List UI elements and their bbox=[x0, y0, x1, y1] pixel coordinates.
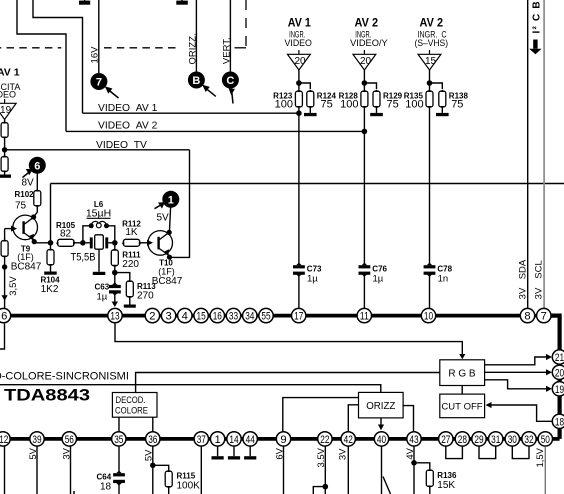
I2C down arrow bbox=[529, 40, 541, 55]
resistor R138 body bbox=[439, 91, 446, 107]
svg-text:6: 6 bbox=[1, 311, 7, 323]
resistor R124 body bbox=[307, 91, 314, 107]
svg-text:5V: 5V bbox=[144, 449, 155, 461]
svg-text:42: 42 bbox=[344, 434, 353, 446]
pin 15 bbox=[194, 308, 208, 322]
svg-text:50: 50 bbox=[541, 434, 550, 446]
wire pin37 down bbox=[200, 447, 202, 494]
wire pin 18 to CUT OFF bbox=[491, 405, 552, 421]
wire IF video long horizontal bbox=[51, 183, 564, 185]
pin 56 bbox=[62, 432, 76, 446]
pin 22 bbox=[318, 432, 332, 446]
pin 40 bbox=[374, 432, 388, 446]
ground bar pin14 bbox=[228, 456, 240, 459]
svg-text:3V: 3V bbox=[534, 287, 545, 299]
T10 collector dot bbox=[167, 230, 172, 235]
svg-text:20: 20 bbox=[360, 56, 372, 67]
wire VIDEO TV horizontal bbox=[5, 149, 190, 151]
T9 emitter dot bbox=[32, 239, 37, 244]
IC top bus edge bbox=[0, 314, 552, 318]
wire AV1 source: from top edge down to VIDEO AV 1 line bbox=[33, 0, 83, 113]
wire VIDEO TV vertical down to T10 emitter bbox=[174, 150, 190, 258]
transistor T9 bbox=[13, 215, 38, 240]
wire pin13 to RGB top bbox=[115, 324, 462, 357]
wire pin35 down to C64 bbox=[118, 447, 120, 474]
svg-text:VIDEO AV 1: VIDEO AV 1 bbox=[98, 103, 158, 114]
svg-text:35: 35 bbox=[114, 434, 123, 446]
wire node to R113 bbox=[115, 273, 130, 281]
transistor T10 bbox=[148, 231, 173, 256]
svg-text:75: 75 bbox=[15, 201, 27, 212]
box CUT OFF bbox=[440, 394, 485, 418]
wire R101a to node bbox=[4, 138, 6, 157]
wire triangle19 to R101 bbox=[4, 120, 6, 123]
svg-text:75: 75 bbox=[451, 99, 463, 111]
svg-text:3V: 3V bbox=[517, 287, 528, 299]
svg-text:36: 36 bbox=[148, 434, 157, 446]
wire R113 to ground bbox=[129, 298, 131, 305]
svg-text:4: 4 bbox=[182, 311, 188, 323]
pin 18 bbox=[552, 414, 564, 428]
svg-text:21: 21 bbox=[555, 352, 564, 364]
pin 55 bbox=[259, 308, 273, 322]
svg-text:AV 2: AV 2 bbox=[355, 17, 379, 29]
wire pin9 down bbox=[283, 447, 285, 494]
resistor R136 body bbox=[426, 470, 433, 487]
svg-text:19: 19 bbox=[0, 105, 12, 116]
resistor R111 body bbox=[111, 250, 118, 266]
svg-text:1K2: 1K2 bbox=[41, 284, 59, 295]
svg-text:16V: 16V bbox=[90, 46, 101, 64]
wire base column down to pin 6 bbox=[4, 229, 6, 240]
wire node to R115 bbox=[153, 465, 169, 470]
svg-text:22: 22 bbox=[320, 434, 329, 446]
test point 1 bbox=[155, 191, 180, 209]
pin 13 bbox=[108, 308, 122, 322]
box ORIZZ bbox=[359, 392, 404, 418]
edge fragment bottom left bbox=[73, 491, 75, 494]
svg-text:270: 270 bbox=[137, 291, 154, 302]
wire node to R124 bbox=[299, 83, 310, 89]
svg-text:6: 6 bbox=[34, 160, 40, 172]
node pin36 R115 bbox=[150, 463, 156, 469]
test point 7 bbox=[90, 73, 118, 98]
svg-text:17: 17 bbox=[294, 311, 303, 323]
resistor R101a body bbox=[1, 123, 8, 138]
wire C64 down bbox=[118, 483, 120, 494]
svg-text:44: 44 bbox=[246, 434, 255, 446]
wire pin44 to ground bbox=[249, 447, 251, 457]
wire 16V rail down to test point 7 bbox=[98, 0, 100, 73]
svg-text:1µ: 1µ bbox=[97, 292, 108, 303]
wire orizz top feed bbox=[0, 385, 381, 393]
svg-text:SDA: SDA bbox=[517, 259, 528, 279]
svg-text:15: 15 bbox=[197, 311, 206, 323]
wire R101b to ground bbox=[4, 172, 6, 175]
pin 33 bbox=[226, 308, 240, 322]
wire decod colore to RGB left bbox=[136, 373, 440, 393]
wire SCL vertical bbox=[543, 0, 545, 308]
wire C76 to pin 11 bbox=[363, 274, 365, 308]
divider AV1 bbox=[273, 17, 336, 308]
U link pins 27-28 bbox=[446, 447, 463, 459]
wire L6 right bracket bbox=[107, 226, 115, 243]
svg-text:AV 1: AV 1 bbox=[0, 67, 20, 79]
svg-text:R G B: R G B bbox=[448, 368, 476, 379]
node T9 emitter / R104 / R105 bbox=[48, 240, 54, 246]
wire triangle to node (AV2) bbox=[363, 70, 365, 83]
wire R104 to ground bbox=[50, 244, 52, 250]
svg-text:20: 20 bbox=[294, 56, 306, 67]
svg-text:3.5V: 3.5V bbox=[316, 447, 327, 467]
capacitor plate stub C-top-left bbox=[79, 0, 90, 5]
pin 10 bbox=[421, 308, 435, 322]
svg-text:43: 43 bbox=[409, 434, 418, 446]
node junction video tv bbox=[2, 147, 7, 152]
svg-text:1: 1 bbox=[168, 194, 174, 206]
wire pin14 to ground bbox=[233, 447, 235, 457]
node filter left bbox=[80, 240, 86, 246]
pin 32 bbox=[522, 432, 536, 446]
node base column bbox=[2, 264, 7, 269]
pin 3 bbox=[161, 308, 175, 322]
svg-text:ORIZZ.: ORIZZ. bbox=[188, 33, 199, 64]
wire RGB to pin 20 bbox=[485, 371, 547, 373]
svg-text:3,5V: 3,5V bbox=[8, 276, 19, 296]
arrow into pin 6 bbox=[2, 295, 8, 301]
wire R102 to T9 collector bbox=[34, 207, 38, 217]
svg-text:1n: 1n bbox=[438, 274, 449, 285]
divider AV2 bbox=[339, 17, 403, 308]
svg-text:100K: 100K bbox=[177, 480, 201, 491]
svg-text:3V: 3V bbox=[337, 448, 348, 460]
node VIDEO AV 2 bbox=[362, 129, 368, 135]
inductor L6 bbox=[91, 221, 106, 227]
svg-text:5V: 5V bbox=[157, 213, 170, 224]
svg-text:40: 40 bbox=[377, 434, 386, 446]
svg-text:AV 1: AV 1 bbox=[288, 17, 312, 29]
IC right edge bbox=[551, 316, 560, 439]
svg-text:34: 34 bbox=[245, 311, 254, 323]
resistor R115 body bbox=[165, 471, 172, 487]
ground bar left input bbox=[0, 175, 11, 178]
pointer mark below pin40 bbox=[383, 477, 391, 494]
svg-text:T5,5B: T5,5B bbox=[71, 252, 96, 264]
resistor base column body bbox=[1, 241, 8, 257]
capacitor C63 bbox=[109, 274, 121, 303]
svg-text:39: 39 bbox=[32, 434, 41, 446]
svg-text:R136: R136 bbox=[437, 471, 457, 480]
resistor R129 body bbox=[373, 91, 380, 107]
svg-text:AV 2: AV 2 bbox=[420, 17, 444, 29]
test point B bbox=[188, 72, 216, 97]
wire R124 to ground bbox=[309, 108, 311, 113]
svg-text:C64: C64 bbox=[97, 473, 112, 482]
pin 39 bbox=[30, 432, 44, 446]
svg-text:2: 2 bbox=[149, 311, 155, 323]
wire T10 emitter to VIDEO TV corner bbox=[170, 256, 175, 258]
wire R112 to T10 base bbox=[141, 242, 148, 244]
wire T9 base left bbox=[5, 228, 11, 230]
resistor R101b body bbox=[1, 157, 8, 172]
svg-text:29: 29 bbox=[474, 434, 483, 446]
wire ORIZZ bottom to pin40 bbox=[380, 418, 382, 429]
svg-text:75: 75 bbox=[387, 99, 399, 111]
pin 44 bbox=[243, 432, 257, 446]
wire triangle to node bbox=[298, 70, 300, 83]
wire T10 collector to tp1 bbox=[169, 208, 170, 233]
svg-text:CUT OFF: CUT OFF bbox=[441, 401, 482, 412]
svg-text:31: 31 bbox=[491, 434, 500, 446]
IC bottom bus edge bbox=[0, 437, 560, 441]
resistor R112 body bbox=[123, 239, 140, 246]
pin 35 bbox=[112, 432, 126, 446]
ground bar filter bbox=[93, 272, 106, 275]
node pin43 R136 bbox=[411, 460, 417, 466]
pin 11 bbox=[357, 308, 371, 322]
svg-text:11: 11 bbox=[360, 311, 369, 323]
T9 emitter arrow bbox=[29, 234, 34, 241]
wire VIDEO AV 1 bbox=[83, 112, 299, 114]
pin 14 bbox=[227, 432, 241, 446]
wire T9 emitter to R105 node bbox=[34, 242, 50, 244]
wire pin43 down bbox=[413, 447, 415, 494]
test point C bbox=[222, 72, 239, 104]
input triangle 15 bbox=[418, 54, 441, 70]
wire pin6 stub bbox=[0, 324, 5, 350]
resistor R123 body bbox=[295, 91, 302, 107]
svg-text:I² C B: I² C B bbox=[531, 0, 542, 33]
wire pin42 down bbox=[347, 447, 349, 494]
svg-text:1: 1 bbox=[214, 434, 220, 446]
svg-text:18: 18 bbox=[100, 481, 112, 492]
ground bar R138 bbox=[436, 113, 449, 116]
svg-text:1,5V: 1,5V bbox=[535, 447, 546, 467]
ground bar pin1 bbox=[212, 456, 224, 459]
pin 6 bbox=[0, 308, 11, 322]
svg-text:C78: C78 bbox=[437, 264, 452, 273]
wire AV2 source: from top edge down to VIDEO AV 2 line bbox=[17, 0, 66, 131]
pin 4 bbox=[178, 308, 192, 322]
svg-text:13: 13 bbox=[110, 311, 119, 323]
pin 42 bbox=[341, 432, 355, 446]
divider AV2 S-VHS bbox=[404, 17, 469, 308]
resistor R128 body bbox=[361, 91, 368, 107]
signal arrow into T10 base bbox=[147, 240, 153, 246]
pin 34 bbox=[243, 308, 257, 322]
node AV1 top bbox=[296, 80, 302, 86]
wire L6 left bracket bbox=[83, 226, 91, 243]
svg-text:VIDEO: VIDEO bbox=[0, 90, 16, 100]
wire pin50 down bbox=[544, 447, 546, 494]
ground bar R113 bbox=[124, 305, 136, 308]
test point 6 bbox=[23, 157, 46, 178]
svg-text:10: 10 bbox=[424, 311, 433, 323]
input triangle 20 (AV2) bbox=[353, 54, 376, 70]
arrow into RGB box bbox=[459, 354, 465, 359]
ground bar R129 bbox=[370, 113, 383, 116]
wire ORIZZ. down to test point B bbox=[195, 0, 197, 72]
svg-text:3V: 3V bbox=[61, 447, 72, 459]
input triangle 19 bbox=[0, 99, 16, 120]
wire base column lower bbox=[4, 257, 6, 308]
node R111 bottom / C63 / R113 bbox=[112, 270, 118, 276]
pin 43 bbox=[407, 432, 421, 446]
svg-text:VIDEO TV: VIDEO TV bbox=[96, 140, 147, 151]
arrow into pin 13 bbox=[112, 302, 118, 308]
wire R123 to video av1 node bbox=[298, 108, 300, 114]
svg-text:R115: R115 bbox=[177, 471, 196, 480]
wire pin12 down bbox=[4, 447, 6, 494]
wire SDA vertical bbox=[527, 0, 529, 308]
signal arrow into T9 base bbox=[11, 226, 17, 232]
shield dashed line vertical bbox=[245, 0, 247, 48]
wire pin9 to ORIZZ left upper bbox=[283, 398, 359, 432]
wire decod to pin36 bbox=[152, 417, 154, 431]
svg-text:BC847: BC847 bbox=[11, 262, 42, 273]
wire pin39 down bbox=[36, 447, 38, 494]
resistor R135 body bbox=[426, 91, 433, 107]
svg-text:B: B bbox=[192, 75, 200, 87]
pin 21 bbox=[552, 350, 564, 364]
svg-text:20: 20 bbox=[555, 367, 564, 379]
svg-text:DECOD.: DECOD. bbox=[116, 395, 146, 405]
svg-text:C: C bbox=[226, 75, 234, 87]
wire RGB to pin 19 bbox=[485, 380, 547, 389]
ceramic filter T5,5B bbox=[86, 235, 112, 249]
pin 16 bbox=[210, 308, 224, 322]
wire tp6 to R102 bbox=[36, 174, 38, 190]
svg-text:1µ: 1µ bbox=[373, 274, 384, 285]
pin 31 bbox=[489, 432, 503, 446]
wire R105 to filter node bbox=[75, 242, 83, 244]
wire C73 to pin 17 bbox=[298, 274, 300, 308]
wire R128 to video av2 node bbox=[363, 108, 365, 132]
svg-text:37: 37 bbox=[197, 434, 206, 446]
wire RGB to CUT OFF bbox=[461, 386, 463, 395]
ground bar R124 bbox=[304, 113, 317, 116]
svg-text:8: 8 bbox=[524, 311, 530, 323]
wire pin22 down bbox=[324, 447, 326, 494]
svg-text:14: 14 bbox=[229, 434, 238, 446]
svg-text:VERT.: VERT. bbox=[222, 37, 233, 64]
pin 7ic bbox=[537, 308, 551, 322]
svg-text:100: 100 bbox=[405, 99, 423, 111]
svg-text:BC847: BC847 bbox=[152, 276, 183, 287]
svg-text:VIDEO: VIDEO bbox=[285, 38, 312, 49]
svg-text:12: 12 bbox=[0, 434, 8, 446]
wire triangle to node (svhs) bbox=[429, 70, 431, 83]
svg-text:75: 75 bbox=[321, 99, 333, 111]
pin 2 bbox=[145, 308, 159, 322]
node AV2C top bbox=[427, 80, 433, 86]
node pin22 branch bbox=[323, 484, 329, 490]
capacitor C76 bbox=[359, 263, 371, 277]
svg-text:33: 33 bbox=[229, 311, 238, 323]
wire decod to pin35 bbox=[118, 417, 120, 431]
svg-text:C73: C73 bbox=[307, 264, 322, 273]
pin 20 bbox=[552, 365, 564, 379]
capacitor plate stub C-top-mid bbox=[176, 0, 188, 5]
svg-text:220: 220 bbox=[122, 259, 139, 270]
svg-text:27: 27 bbox=[441, 434, 450, 446]
svg-text:(1F): (1F) bbox=[17, 252, 34, 262]
wire C78 to pin 10 bbox=[429, 274, 431, 308]
pin 37 bbox=[194, 432, 208, 446]
resistor R105 body bbox=[58, 239, 75, 246]
wire pin42 to ORIZZ left lower bbox=[348, 405, 358, 431]
pin 17 bbox=[292, 308, 306, 322]
resistor R102 body bbox=[34, 191, 41, 207]
pin 1 bbox=[210, 432, 224, 446]
pin 19 bbox=[552, 382, 564, 396]
wire node to R136 bbox=[414, 463, 430, 469]
wire RGB to pin 21 bbox=[485, 357, 547, 365]
svg-text:16: 16 bbox=[213, 311, 222, 323]
box DECOD. COLORE bbox=[112, 393, 157, 418]
svg-text:30: 30 bbox=[508, 434, 517, 446]
pin 28 bbox=[455, 432, 469, 446]
svg-text:(S–VHS): (S–VHS) bbox=[415, 38, 449, 49]
svg-text:5V: 5V bbox=[28, 447, 39, 459]
wire node to R129 bbox=[364, 83, 376, 89]
capacitor C64 bbox=[113, 471, 125, 486]
svg-text:28: 28 bbox=[458, 434, 467, 446]
svg-text:VIDEO AV 2: VIDEO AV 2 bbox=[98, 120, 158, 131]
svg-text:(1F): (1F) bbox=[158, 267, 175, 277]
svg-text:R102: R102 bbox=[15, 190, 35, 199]
pin 29 bbox=[472, 432, 486, 446]
svg-text:7: 7 bbox=[541, 311, 547, 323]
ground bar R104 bbox=[44, 272, 57, 275]
resistor R104 body bbox=[47, 250, 54, 266]
wire VIDEO AV 2 bbox=[66, 130, 364, 132]
wire R129 to ground bbox=[376, 108, 378, 113]
node filter right / R111 / R112 bbox=[112, 240, 118, 246]
pin 36 bbox=[146, 432, 160, 446]
svg-text:100: 100 bbox=[340, 99, 358, 111]
svg-text:C76: C76 bbox=[372, 264, 387, 273]
pin 27 bbox=[439, 432, 453, 446]
svg-text:8V: 8V bbox=[22, 178, 35, 189]
T10 emitter arrow bbox=[164, 249, 169, 256]
svg-text:TDA8843: TDA8843 bbox=[4, 385, 90, 404]
T9 collector dot bbox=[31, 214, 36, 219]
svg-text:32: 32 bbox=[524, 434, 533, 446]
svg-text:3: 3 bbox=[165, 311, 171, 323]
pin 8 bbox=[520, 308, 534, 322]
box RGB bbox=[440, 360, 485, 386]
pin 30 bbox=[505, 432, 519, 446]
svg-text:VIDEO/Y: VIDEO/Y bbox=[350, 38, 388, 49]
wire pin56 down bbox=[70, 447, 72, 494]
svg-text:1µ: 1µ bbox=[307, 274, 318, 285]
wire AV2 column down to C76 bbox=[363, 131, 365, 265]
svg-text:100: 100 bbox=[275, 99, 293, 111]
wire R138 to ground bbox=[441, 108, 443, 113]
svg-text:1K: 1K bbox=[125, 227, 138, 238]
wire node to R138 bbox=[430, 83, 443, 89]
svg-text:9: 9 bbox=[280, 434, 286, 446]
U link pins 29-31 bbox=[479, 447, 496, 459]
svg-text:55: 55 bbox=[261, 311, 270, 323]
svg-text:O-COLORE-SINCRONISMI: O-COLORE-SINCRONISMI bbox=[0, 370, 129, 382]
svg-text:18: 18 bbox=[555, 416, 564, 428]
input triangle 20 (AV1) bbox=[288, 54, 311, 70]
pin 50 bbox=[538, 432, 552, 446]
wire R135 column down to C78 bbox=[429, 108, 431, 266]
svg-text:56: 56 bbox=[65, 434, 74, 446]
